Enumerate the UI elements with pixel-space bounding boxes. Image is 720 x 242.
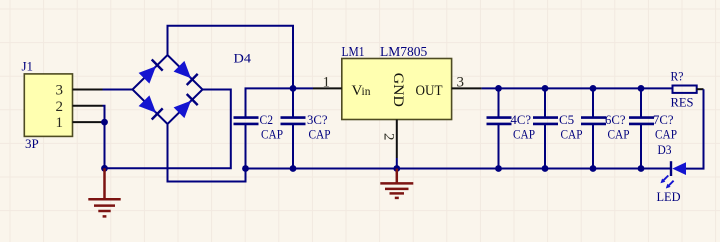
capacitor 4C? [487, 85, 536, 172]
svg-text:3C?: 3C? [307, 112, 328, 127]
capacitor 6C? [581, 85, 630, 172]
svg-text:CAP: CAP [561, 127, 583, 142]
svg-text:C2: C2 [260, 112, 274, 127]
svg-text:J1: J1 [22, 59, 34, 74]
ground near J1 [88, 168, 120, 216]
pin 2 of J1 [73, 105, 103, 107]
diode D4-c (left to bottom) [139, 95, 163, 119]
svg-text:LM1: LM1 [342, 44, 365, 59]
wire J1 pin2 down to ground rail [103, 106, 105, 169]
junction C2 bottom at ground rail [242, 165, 249, 172]
pin 1 of LM7805 [313, 87, 342, 89]
ground rail bottom (C2 to LED) [246, 168, 672, 170]
svg-text:CAP: CAP [261, 127, 283, 142]
pin 1 of J1 [73, 121, 103, 123]
pin 3 of J1 [73, 89, 103, 91]
pin 2 of LM7805 [396, 120, 398, 159]
svg-text:3P: 3P [25, 136, 39, 151]
svg-text:4C?: 4C? [511, 112, 532, 127]
junction ground rail near J1 [101, 165, 108, 172]
regulator U LM1 LM7805 [342, 44, 452, 120]
wire J1 pin1 stub [103, 121, 105, 123]
svg-text:GND: GND [390, 73, 406, 107]
svg-text:CAP: CAP [513, 127, 535, 142]
svg-text:LM7805: LM7805 [380, 44, 428, 59]
top +5V rail right [482, 87, 673, 89]
junction regulator gnd [393, 165, 400, 172]
svg-text:D3: D3 [658, 142, 672, 157]
wire resistor to LED [686, 89, 704, 168]
svg-text:3: 3 [56, 83, 64, 99]
junction 3C? bottom at ground rail [290, 165, 297, 172]
svg-text:6C?: 6C? [605, 112, 626, 127]
wire bridge bottom to C2 bottom path [168, 124, 246, 182]
wire J1 pin3 to bridge left vertex [103, 89, 133, 91]
svg-text:in: in [362, 86, 371, 98]
resistor R? [671, 68, 704, 109]
capacitor C2 [234, 112, 284, 168]
wire bridge top to upper rail [168, 26, 294, 89]
capacitor 7C? [629, 85, 677, 172]
wire pin2 to ground rail [396, 158, 398, 169]
svg-text:2: 2 [56, 99, 64, 115]
svg-text:2: 2 [381, 133, 397, 141]
diode D4-d (bottom to right) [174, 94, 198, 118]
junction pin1/pin2 [101, 119, 108, 126]
capacitor C5 [533, 85, 583, 172]
svg-text:3: 3 [457, 75, 465, 91]
pin 3 of LM7805 [452, 87, 482, 89]
bridge rectifier D4 outline [133, 55, 203, 124]
wire top rail C2 to regulator [246, 88, 314, 117]
svg-text:C5: C5 [559, 112, 574, 127]
svg-text:1: 1 [323, 75, 331, 91]
svg-text:1: 1 [56, 115, 64, 131]
capacitor 3C? [281, 112, 331, 168]
svg-text:CAP: CAP [309, 127, 331, 142]
svg-text:7C?: 7C? [653, 112, 674, 127]
LED D3 [657, 142, 687, 204]
svg-text:CAP: CAP [655, 127, 677, 142]
svg-text:LED: LED [657, 189, 681, 204]
svg-text:RES: RES [671, 95, 694, 110]
svg-text:D4: D4 [234, 50, 252, 65]
svg-text:CAP: CAP [608, 127, 630, 142]
junction top rail at 3C? [290, 85, 297, 92]
svg-text:R?: R? [671, 68, 684, 83]
connector J1 [22, 59, 73, 152]
wire left ground rail to bridge right vertex [105, 90, 231, 169]
ground at regulator [380, 169, 413, 198]
diode D4-b (top to right) [174, 61, 198, 85]
wire 3C? top lead [292, 88, 294, 117]
svg-text:OUT: OUT [416, 83, 443, 99]
diode D4-a (left to top) [139, 60, 163, 84]
